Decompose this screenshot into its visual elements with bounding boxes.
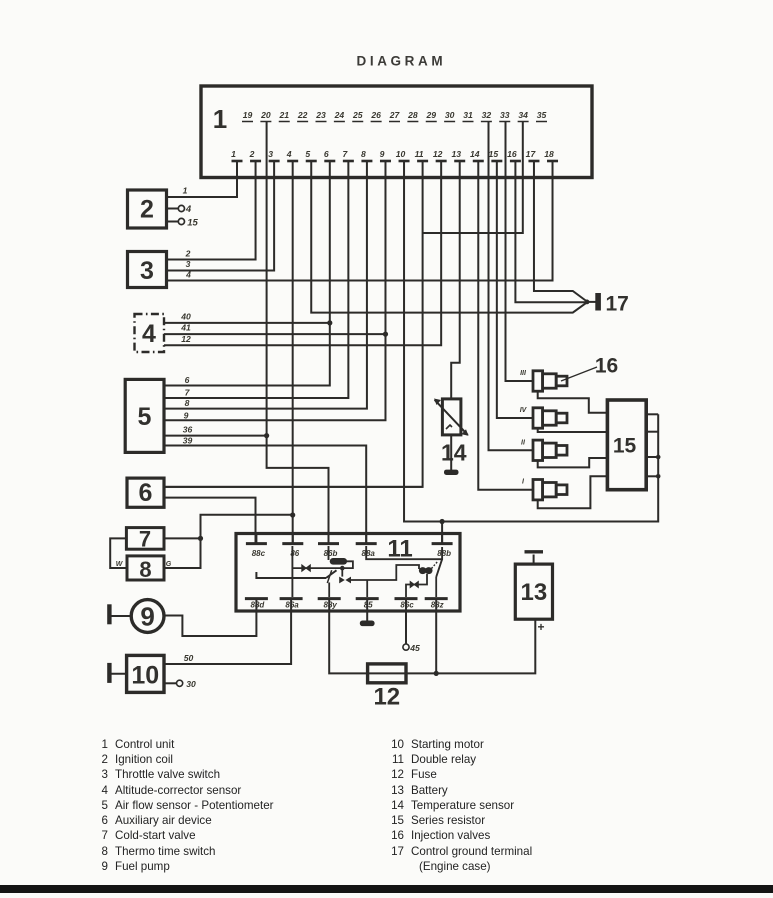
wire injection valve I to series resistor bbox=[538, 476, 608, 508]
svg-text:25: 25 bbox=[352, 110, 363, 120]
relay internal: 86 diode branch bbox=[292, 567, 342, 569]
fuel pump left terminal bar bbox=[111, 615, 132, 617]
wire air-flow sensor lead 39 to relay 88a bbox=[164, 446, 366, 544]
wire injection valve IV to series resistor bbox=[538, 428, 608, 432]
auxiliary air device (box 6) bbox=[127, 478, 164, 507]
svg-text:33: 33 bbox=[500, 110, 510, 120]
svg-text:4: 4 bbox=[286, 149, 292, 159]
svg-text:1: 1 bbox=[183, 186, 188, 196]
relay terminal 86b (top) bbox=[328, 535, 330, 543]
relay internal: winding (right relay coil) bbox=[419, 567, 427, 574]
relay terminal 86a (bottom) bbox=[280, 597, 303, 600]
relay internal: 88a to 88b link bbox=[366, 546, 442, 559]
svg-text:85: 85 bbox=[364, 601, 373, 610]
coil terminal 4 stub bbox=[166, 208, 178, 210]
svg-text:23: 23 bbox=[315, 110, 326, 120]
svg-text:DIAGRAM: DIAGRAM bbox=[357, 54, 447, 69]
injection valve I bbox=[533, 480, 543, 500]
node: 88z joins fuse-battery wire bbox=[434, 671, 439, 676]
legend column 1 bbox=[0, 738, 108, 751]
node: altitude sensor lead 40 joins pin6 wire bbox=[327, 320, 332, 325]
svg-text:24: 24 bbox=[334, 110, 345, 120]
svg-text:10: 10 bbox=[131, 662, 159, 690]
svg-text:6: 6 bbox=[324, 149, 329, 159]
wire auxiliary air device upper lead (to pin11 wire) bbox=[164, 486, 423, 488]
label 16 with callout to injection valves bbox=[561, 367, 597, 381]
wire injection valve III to series resistor bbox=[538, 391, 608, 412]
svg-text:2: 2 bbox=[185, 249, 191, 259]
relay terminal 85 (bottom) bbox=[356, 597, 379, 600]
svg-text:30: 30 bbox=[186, 679, 196, 689]
svg-text:3: 3 bbox=[186, 259, 191, 269]
relay terminal 88b (top) bbox=[441, 535, 443, 543]
relay terminal 86 (top) bbox=[292, 535, 294, 543]
cold-start valve (box 7) bbox=[126, 528, 164, 550]
wire pin2 to throttle switch (lead 2) bbox=[165, 162, 256, 260]
injection valve II bbox=[533, 440, 543, 460]
wire air-flow sensor lead 36 bbox=[164, 435, 267, 437]
svg-text:13: 13 bbox=[521, 579, 548, 606]
wire pin32 to injection valve II bbox=[489, 122, 534, 450]
svg-text:10: 10 bbox=[396, 149, 406, 159]
fuse (12) bbox=[368, 664, 406, 683]
air flow sensor potentiometer (box 5) bbox=[125, 379, 164, 452]
svg-text:86c: 86c bbox=[400, 601, 414, 610]
wire auxiliary air device lower lead to relay 88c bbox=[164, 498, 256, 543]
svg-text:+: + bbox=[537, 620, 544, 634]
relay internal: contact points (left relay) bbox=[339, 577, 345, 584]
wire pin33 to injection valve III bbox=[506, 122, 534, 381]
svg-text:16: 16 bbox=[595, 355, 618, 378]
resistor right stub (middle) bbox=[646, 456, 658, 458]
svg-text:G: G bbox=[166, 561, 172, 568]
relay internal: 86c diode branch bbox=[406, 574, 427, 597]
svg-text:II: II bbox=[521, 439, 526, 446]
svg-text:9: 9 bbox=[140, 602, 154, 632]
svg-text:4: 4 bbox=[185, 204, 192, 215]
svg-text:4: 4 bbox=[185, 270, 191, 280]
relay terminal 86c (bottom) bbox=[395, 597, 418, 600]
svg-text:88y: 88y bbox=[324, 601, 338, 610]
relay internal: 88y riser bbox=[328, 583, 330, 598]
node: relay 88b riser on supply bus bbox=[440, 519, 445, 524]
svg-text:22: 22 bbox=[297, 110, 308, 120]
relay internal: winding (left relay coil) bbox=[328, 546, 330, 560]
svg-text:88b: 88b bbox=[437, 549, 451, 558]
svg-text:27: 27 bbox=[389, 110, 401, 120]
double relay (box 11) bbox=[236, 534, 460, 612]
svg-text:12: 12 bbox=[373, 684, 400, 711]
svg-text:17: 17 bbox=[606, 293, 629, 316]
starting motor terminal 30 stub bbox=[164, 682, 176, 684]
node: thermo switch riser crosses cold-start wire bbox=[198, 536, 203, 541]
injection valve III bbox=[533, 371, 543, 391]
wire bracket joining boxes 7 and 8 (W terminal) bbox=[110, 538, 127, 568]
svg-text:31: 31 bbox=[463, 110, 473, 120]
wire injection valve II to series resistor bbox=[538, 458, 608, 467]
wire relay 88y to fuse bbox=[329, 610, 367, 674]
wire pin6 to air-flow sensor lead 6 bbox=[164, 162, 330, 386]
svg-text:6: 6 bbox=[185, 375, 190, 385]
wire cold-start valve to relay 88c riser bbox=[164, 537, 201, 539]
svg-text:6: 6 bbox=[139, 479, 153, 507]
svg-text:29: 29 bbox=[425, 110, 436, 120]
temperature sensor ground bbox=[450, 435, 452, 470]
legend column 2 bbox=[300, 738, 404, 751]
bottom rule bar bbox=[0, 885, 773, 893]
svg-text:17: 17 bbox=[526, 149, 537, 159]
wire pin10 to supply bus / relay 88b / series resistor bbox=[404, 162, 658, 522]
wire pin9 to air-flow sensor lead 9 bbox=[164, 162, 385, 420]
wire riser to relay 88b bbox=[441, 522, 443, 544]
throttle valve switch (box 3) bbox=[128, 252, 167, 288]
relay internal: contact arm (left relay) bbox=[326, 570, 337, 578]
resistor right stub (upper middle) bbox=[646, 431, 658, 433]
svg-text:7: 7 bbox=[139, 527, 151, 552]
svg-text:86a: 86a bbox=[285, 601, 299, 610]
svg-text:8: 8 bbox=[139, 557, 151, 582]
temperature sensor (14) bbox=[442, 399, 461, 435]
relay internal: contact arm (right relay) bbox=[436, 559, 442, 577]
wire pin18 to throttle switch (lead 4) bbox=[165, 162, 553, 281]
wire thermo time switch G terminal riser to relay 86 wire bbox=[164, 515, 293, 568]
svg-text:50: 50 bbox=[184, 653, 194, 663]
resistor right stub (bottom) bbox=[646, 475, 658, 477]
svg-text:16: 16 bbox=[507, 149, 517, 159]
node: coil/diode junction bbox=[340, 566, 345, 571]
ignition coil (box 2) bbox=[128, 190, 167, 228]
svg-text:20: 20 bbox=[260, 110, 271, 120]
node: air-flow lead 36 joins pin20 wire bbox=[264, 433, 269, 438]
resistor right stub (top) bbox=[646, 413, 658, 415]
svg-text:1: 1 bbox=[213, 104, 227, 134]
svg-text:88a: 88a bbox=[362, 549, 376, 558]
wire pin15 to injection valve IV bbox=[497, 162, 533, 418]
svg-text:8: 8 bbox=[361, 149, 366, 159]
wire fuel pump to relay 88d bbox=[164, 612, 256, 636]
series resistor (box 15) bbox=[607, 400, 646, 490]
wire pin14 to injection valve I bbox=[478, 162, 533, 490]
svg-text:86b: 86b bbox=[324, 549, 338, 558]
svg-text:18: 18 bbox=[544, 149, 554, 159]
relay internal: 86 to 86a through-link bbox=[291, 546, 293, 597]
control unit U1 (box 1) bbox=[201, 86, 592, 178]
node: resistor stub joins bus bbox=[656, 474, 661, 479]
svg-text:35: 35 bbox=[537, 110, 547, 120]
wire pin20 to relay terminal 86b (via air-flow lead 36) bbox=[267, 122, 329, 543]
svg-text:41: 41 bbox=[180, 323, 191, 333]
relay terminal 88a (top) bbox=[365, 535, 367, 543]
wire relay 88z down to fuse line bbox=[435, 610, 437, 674]
wire pin7 to air-flow sensor lead 7 bbox=[164, 162, 348, 398]
wire pin5 to ground terminal 17 bbox=[311, 162, 587, 313]
thermo time switch (box 8) bbox=[127, 556, 164, 580]
coil terminal 15 stub bbox=[166, 221, 178, 223]
control ground terminal 17 (engine case) bbox=[585, 300, 590, 305]
svg-text:7: 7 bbox=[342, 149, 348, 159]
relay 86c terminal 45 stub bbox=[405, 610, 407, 644]
svg-text:88c: 88c bbox=[252, 549, 266, 558]
svg-text:3: 3 bbox=[268, 149, 273, 159]
wire altitude sensor lead 40 bbox=[164, 322, 330, 324]
relay terminal 88c (top) bbox=[255, 535, 257, 543]
svg-text:28: 28 bbox=[407, 110, 418, 120]
fuel pump (circle 9) bbox=[131, 600, 164, 633]
svg-text:13: 13 bbox=[451, 149, 461, 159]
svg-text:88d: 88d bbox=[251, 601, 266, 610]
node: resistor stub joins bus bbox=[656, 455, 661, 460]
wire pin3 to throttle switch (lead 3) bbox=[165, 162, 274, 271]
svg-text:19: 19 bbox=[243, 110, 253, 120]
relay internal: contact to 85 and right coil bbox=[351, 565, 419, 580]
injection valve IV bbox=[533, 408, 543, 428]
relay 85 ground symbol bbox=[366, 610, 368, 621]
svg-text:12: 12 bbox=[433, 149, 443, 159]
relay terminal 88y (bottom) bbox=[318, 597, 341, 600]
svg-text:12: 12 bbox=[181, 334, 191, 344]
svg-text:45: 45 bbox=[409, 643, 420, 653]
svg-text:15: 15 bbox=[187, 218, 198, 229]
wire pin11 to auxiliary air device bbox=[164, 162, 423, 487]
svg-text:4: 4 bbox=[142, 320, 156, 348]
relay terminal 88z (bottom) bbox=[425, 597, 448, 600]
wire pin17 to ground terminal 17 bbox=[534, 162, 587, 302]
wire fuse to battery bbox=[406, 619, 535, 673]
svg-text:III: III bbox=[520, 370, 527, 377]
svg-text:I: I bbox=[522, 479, 525, 486]
wire pin4 to relay terminal 86 bbox=[292, 162, 294, 543]
svg-text:7: 7 bbox=[185, 388, 191, 398]
svg-text:30: 30 bbox=[445, 110, 455, 120]
svg-text:14: 14 bbox=[441, 440, 467, 466]
wire pin1 to ignition coil bbox=[166, 162, 237, 197]
wire altitude sensor lead 41 bbox=[164, 333, 385, 335]
svg-text:26: 26 bbox=[370, 110, 381, 120]
node: altitude sensor lead 41 joins pin9 wire bbox=[383, 332, 388, 337]
relay internal: 88z riser bbox=[435, 577, 437, 597]
relay terminal 88d (bottom) bbox=[245, 597, 268, 600]
wire pin12 to altitude sensor lead 12 bbox=[164, 162, 441, 345]
svg-text:32: 32 bbox=[482, 110, 492, 120]
svg-text:39: 39 bbox=[183, 436, 193, 446]
relay internal: 88c contact feed bbox=[256, 572, 326, 578]
svg-text:14: 14 bbox=[470, 149, 480, 159]
starting motor (box 10) bbox=[127, 655, 164, 692]
wire starting motor terminal 50 to relay 86a bbox=[164, 612, 291, 664]
svg-text:15: 15 bbox=[489, 149, 499, 159]
wire pin8 to air-flow sensor lead 8 bbox=[164, 162, 367, 409]
svg-text:15: 15 bbox=[613, 435, 637, 458]
svg-text:34: 34 bbox=[518, 110, 528, 120]
altitude-corrector sensor (box 4, dash-dot outline) bbox=[135, 314, 165, 352]
svg-text:W: W bbox=[116, 561, 124, 568]
svg-text:36: 36 bbox=[183, 425, 193, 435]
starting motor left terminal bar bbox=[111, 673, 127, 675]
svg-text:9: 9 bbox=[184, 411, 189, 421]
svg-text:5: 5 bbox=[305, 149, 310, 159]
wire pin16 to ground terminal 17 bbox=[515, 162, 587, 302]
svg-text:8: 8 bbox=[185, 398, 190, 408]
node: cold-start riser joins pin4 wire bbox=[290, 512, 295, 517]
svg-text:IV: IV bbox=[520, 407, 528, 414]
svg-text:2: 2 bbox=[140, 196, 154, 224]
svg-text:21: 21 bbox=[278, 110, 289, 120]
svg-text:3: 3 bbox=[140, 257, 154, 285]
battery (13) bbox=[515, 564, 552, 619]
svg-text:5: 5 bbox=[138, 403, 152, 431]
wire pin34 crossover to pin11 wire bbox=[423, 122, 523, 233]
battery top terminal bbox=[533, 555, 535, 565]
svg-text:9: 9 bbox=[380, 149, 385, 159]
svg-text:1: 1 bbox=[231, 149, 236, 159]
svg-text:2: 2 bbox=[249, 149, 255, 159]
wire pin13 to temperature sensor bbox=[451, 162, 460, 399]
svg-text:40: 40 bbox=[180, 312, 191, 322]
svg-text:11: 11 bbox=[415, 149, 424, 159]
